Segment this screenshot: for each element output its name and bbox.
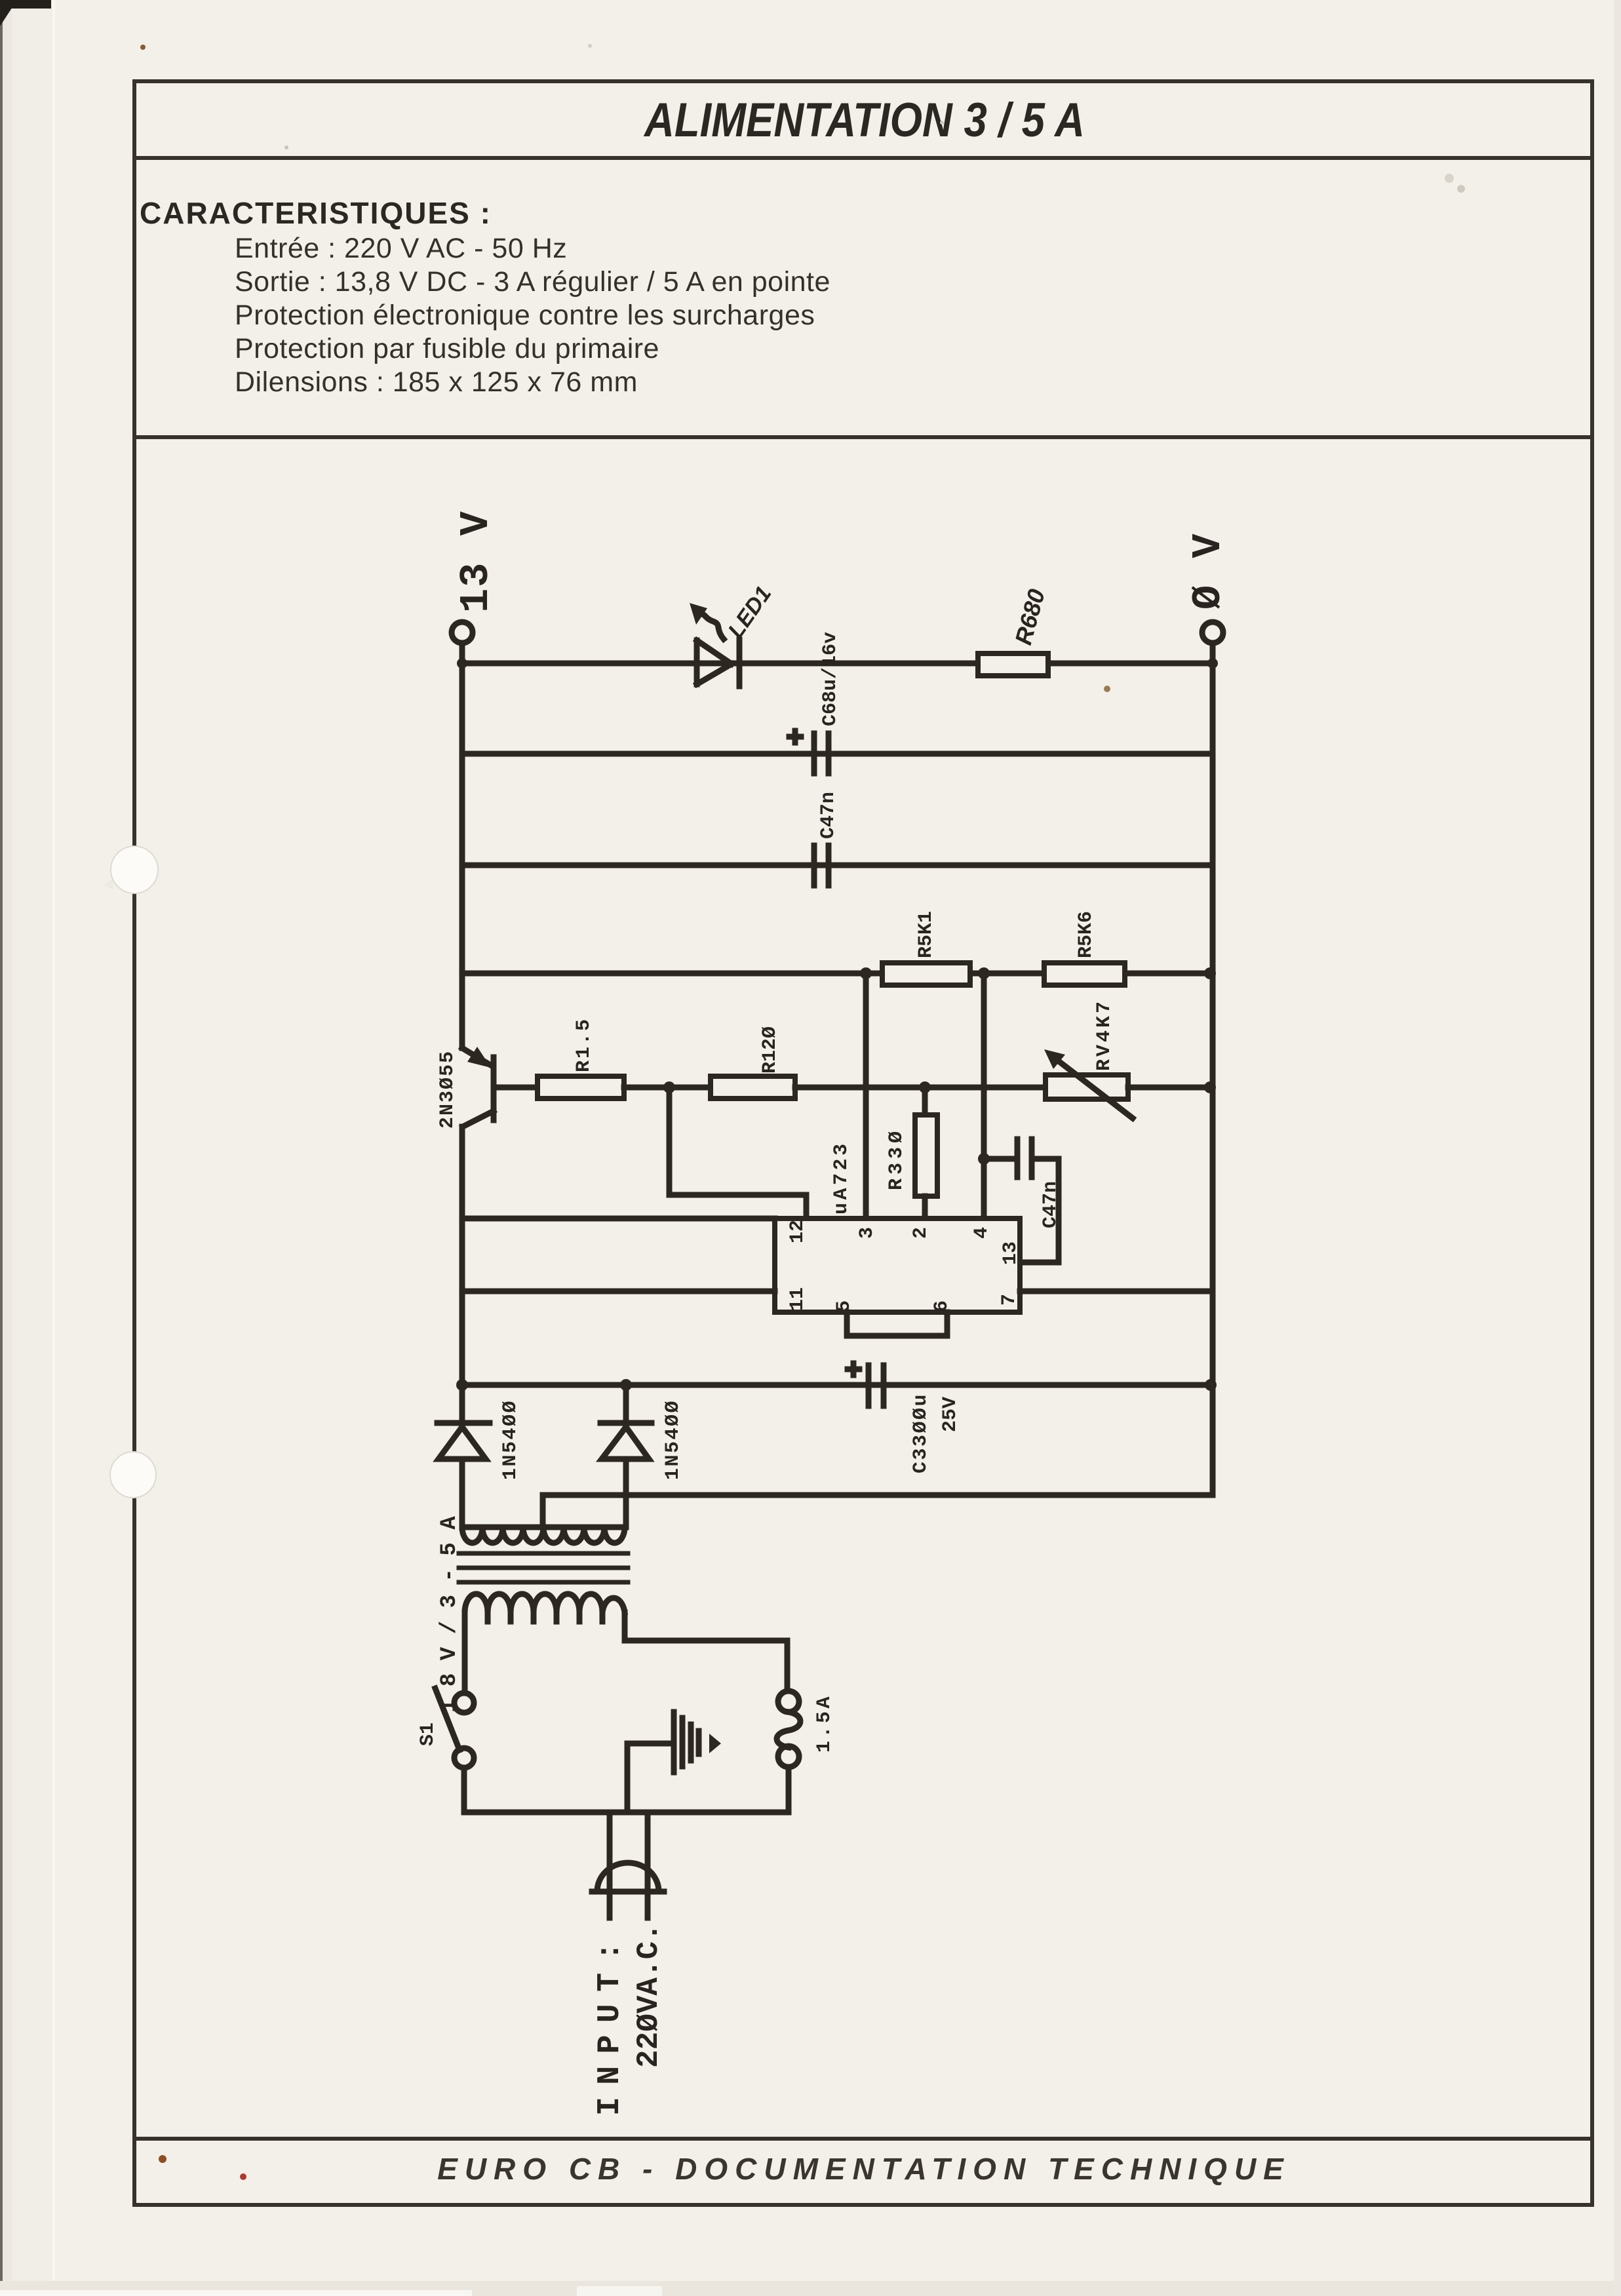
svg-text:2N3Ø55: 2N3Ø55: [437, 1050, 459, 1129]
ground chassis symbol: [627, 1712, 721, 1812]
characteristics separator line: [134, 435, 1592, 439]
svg-text:R12Ø: R12Ø: [759, 1026, 781, 1074]
wire: base wire: [496, 1085, 537, 1091]
node: left terminal junction: [457, 658, 467, 669]
wire: base row middle: [624, 1085, 711, 1091]
LED LED1: [697, 640, 739, 686]
svg-text:2: 2: [910, 1227, 932, 1239]
wire: pin11 row left: [462, 1289, 775, 1294]
transformer T1 core: [459, 1553, 628, 1582]
svg-text:Ø V: Ø V: [1185, 532, 1232, 610]
node: R5K1 left junction: [860, 967, 872, 979]
svg-text:CARACTERISTIQUES :: CARACTERISTIQUES :: [140, 196, 492, 230]
op-amp regulator U1 uA723: [775, 1218, 1020, 1312]
transformer T1 primary: [465, 1594, 625, 1622]
capacitor C47n: [814, 846, 829, 885]
wire: RV4K7 to right rail: [1128, 1085, 1213, 1091]
node: C47n pin4 junction: [978, 1153, 990, 1165]
svg-text:C47n: C47n: [817, 792, 840, 839]
wire: left rail to IC corner (pin12 row): [462, 1216, 775, 1222]
node: C3300u bus rail junction: [1205, 1379, 1217, 1391]
terminal 13V: [452, 622, 473, 663]
svg-text:Dilensions : 185 x 125 x 76 m: Dilensions : 185 x 125 x 76 mm: [235, 366, 638, 398]
svg-text:C47n: C47n: [1040, 1181, 1062, 1228]
svg-text:1N54ØØ: 1N54ØØ: [499, 1399, 522, 1480]
LED1 emission arrow (handwritten): [690, 603, 724, 639]
wire: left rail lower: [459, 1127, 465, 1420]
svg-text:13 V: 13 V: [453, 510, 499, 613]
svg-text:1.5A: 1.5A: [813, 1694, 836, 1753]
wire: pin4 riser: [981, 973, 987, 1218]
mains plug P1: [592, 1812, 664, 1918]
svg-text:C33ØØu: C33ØØu: [910, 1393, 932, 1473]
potentiometer RV4K7: [1044, 1049, 1133, 1118]
wire: junction down to pin12: [669, 1087, 806, 1218]
transformer T1 secondary: [462, 1527, 625, 1543]
switch S1: [435, 1688, 474, 1768]
svg-text:S1: S1: [417, 1722, 439, 1746]
resistor R120: [711, 1076, 795, 1099]
node: R5K1 right junction: [978, 967, 990, 979]
transistor Q1 2N3055: [462, 1047, 494, 1127]
svg-text:6: 6: [931, 1300, 953, 1312]
title separator line: [134, 156, 1592, 160]
fuse F1 1.5A: [777, 1691, 800, 1767]
wire: right rail: [1210, 663, 1216, 1495]
wire: switch to bottom bus: [461, 1768, 467, 1812]
svg-text:7: 7: [998, 1294, 1021, 1306]
wire: primary left lead: [462, 1612, 468, 1693]
svg-text:R1.5: R1.5: [573, 1017, 595, 1072]
svg-text:C68u/16v: C68u/16v: [819, 632, 842, 726]
svg-text:4: 4: [971, 1227, 993, 1239]
svg-text:INPUT:: INPUT:: [593, 1930, 628, 2116]
svg-text:R5K6: R5K6: [1075, 911, 1097, 958]
svg-text:Sortie : 13,8 V DC - 3 A régul: Sortie : 13,8 V DC - 3 A régulier / 5 A …: [235, 266, 830, 298]
resistor R330: [915, 1087, 937, 1218]
svg-text:22ØVA.C.: 22ØVA.C.: [632, 1923, 666, 2068]
node: bus4 right rail junction: [1204, 967, 1216, 979]
resistor R680: [978, 653, 1048, 676]
svg-text:25V: 25V: [939, 1397, 962, 1432]
wire: third bus (C47n row): [462, 863, 1213, 868]
node: diode D2 top junction: [620, 1379, 632, 1391]
svg-text:R33Ø: R33Ø: [886, 1127, 908, 1190]
svg-text:EURO CB - DOCUMENTATION TECHNI: EURO CB - DOCUMENTATION TECHNIQUE: [437, 2152, 1291, 2186]
wire: mains bottom bus: [464, 1810, 789, 1816]
resistor R5K1: [882, 963, 970, 985]
capacitor C47n (pin13): [984, 1139, 1059, 1262]
node: R330 top junction: [919, 1081, 931, 1093]
wire: top output bus 13V: [462, 661, 1212, 667]
node: C3300u bus left junction: [456, 1379, 468, 1391]
node: right terminal junction: [1207, 658, 1218, 669]
svg-text:3: 3: [856, 1227, 878, 1239]
resistor R1.5: [537, 1076, 624, 1099]
wire: fuse to bottom bus: [786, 1767, 792, 1812]
svg-text:12: 12: [787, 1220, 809, 1243]
terminal 0V: [1202, 622, 1223, 663]
resistor R5K6: [1044, 963, 1125, 985]
wire: centre-tap return bus: [543, 1495, 1213, 1527]
svg-text:R5K1: R5K1: [915, 911, 937, 958]
capacitor C3300u 25V: [848, 1363, 884, 1406]
svg-text:5: 5: [833, 1300, 855, 1312]
node: base row rail junction: [1204, 1081, 1216, 1093]
wire: pin7 row right: [1020, 1289, 1213, 1294]
svg-text:18V/3-5A: 18V/3-5A: [437, 1504, 462, 1713]
diode D1 1N5400: [437, 1423, 490, 1527]
wire: C3300u bus: [462, 1382, 1213, 1388]
svg-text:uA723: uA723: [830, 1140, 853, 1215]
diode D2 1N5400: [600, 1385, 652, 1527]
wire: base row right: [795, 1085, 1045, 1091]
svg-text:RV4K7: RV4K7: [1093, 999, 1116, 1071]
wire: primary right lead to fuse: [625, 1612, 787, 1691]
wire: fourth bus (R5K1/R5K6 row): [462, 971, 1213, 977]
wire: second bus (C68u row): [462, 751, 1213, 757]
footer separator line: [134, 2137, 1592, 2141]
svg-text:ALIMENTATION 3 / 5 A: ALIMENTATION 3 / 5 A: [643, 94, 1085, 147]
svg-text:11: 11: [787, 1287, 809, 1311]
svg-text:Entrée : 220 V AC - 50 Hz: Entrée : 220 V AC - 50 Hz: [235, 233, 567, 264]
svg-text:13: 13: [1000, 1241, 1022, 1265]
wire: pins 5-6 strap: [847, 1312, 947, 1336]
svg-text:1N54ØØ: 1N54ØØ: [662, 1399, 684, 1480]
wire: pin3 riser: [863, 973, 869, 1218]
node: R1.5/R120 junction: [663, 1081, 675, 1093]
svg-text:Protection par fusible du prim: Protection par fusible du primaire: [235, 333, 659, 364]
wire: left rail upper: [459, 663, 465, 1048]
capacitor C68u/16v: [789, 731, 829, 773]
svg-text:Protection électronique contre: Protection électronique contre les surch…: [235, 300, 815, 331]
